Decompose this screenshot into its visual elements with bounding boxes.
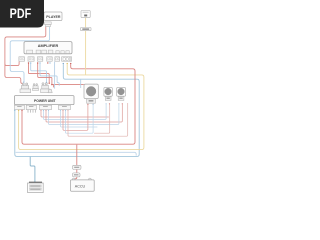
wire blue tangle 2: amp terminal 3 toward power unit grommet xyxy=(40,63,59,86)
svg-text:PLAYER: PLAYER xyxy=(46,15,61,19)
wire blue drop to subwoofer xyxy=(80,80,82,88)
player connector xyxy=(45,22,52,27)
grommet connector xyxy=(48,89,52,92)
power terminal 2 xyxy=(26,105,36,109)
wire red branch to amplifier terminal xyxy=(5,62,19,66)
wire red: battery feed from red bus through fuses xyxy=(76,145,78,166)
speaker run red to speaker 1 xyxy=(63,105,88,131)
power terminal 1 xyxy=(14,105,24,109)
power terminal stubs xyxy=(28,110,36,113)
remote box xyxy=(81,28,92,31)
speaker SP1 xyxy=(84,84,98,105)
wire red tangle 2: amp terminal 3 toward power unit grommet xyxy=(38,63,52,84)
amp terminal row xyxy=(19,57,72,61)
antenna box xyxy=(81,11,90,18)
wire yellow: remote box down to yellow bus xyxy=(85,31,87,75)
svg-text:POWER UNIT: POWER UNIT xyxy=(34,99,57,103)
fuse F1 xyxy=(73,165,82,169)
svg-text:ACCU: ACCU xyxy=(75,185,86,189)
wire yellow bus: amp pin right side loop to power unit xyxy=(19,64,144,149)
wire yellow: antenna box to remote box xyxy=(85,18,87,28)
speaker run pale from power unit terminal 4 xyxy=(61,110,98,127)
speaker wire pink long from speaker 2 xyxy=(94,105,110,134)
speaker run red upper xyxy=(41,110,109,117)
bottom-left box (car stereo tap) xyxy=(28,182,44,192)
svg-text:PDF: PDF xyxy=(10,6,32,22)
speaker run blue to speaker 2 xyxy=(44,105,107,120)
PLAYER box xyxy=(44,12,62,21)
PDF badge overlay xyxy=(0,0,44,28)
wire blue branch to bottom-left box xyxy=(30,157,35,183)
power unit xyxy=(14,96,74,105)
speaker run blue to speaker 3 xyxy=(49,105,119,125)
wire red tangle 1: amp terminal 2 to relay 3 xyxy=(29,63,50,83)
wire red: fuse2 to ACCU xyxy=(75,177,77,179)
wire blue: player connector to relay 1 xyxy=(10,27,49,82)
svg-text:AMPLIFIER: AMPLIFIER xyxy=(38,44,59,48)
power terminal 3 xyxy=(39,105,51,109)
wire red: fuse1 to fuse2 xyxy=(76,169,78,173)
fuse F2 xyxy=(73,173,81,177)
amplifier U1 xyxy=(24,42,72,54)
relay 2 xyxy=(32,84,38,91)
speaker run pink to right side xyxy=(68,103,128,136)
amp connector row xyxy=(27,50,70,53)
relay 3 xyxy=(41,83,50,93)
amp pin dots xyxy=(28,62,72,64)
wire blue tangle 1: amp terminal 2 to relay 3 xyxy=(31,63,47,82)
wire red spur to subwoofer xyxy=(52,84,84,86)
wire red bus: amp pin right side loop to power unit xyxy=(22,64,135,144)
battery ACCU xyxy=(71,178,95,191)
power terminal 4 xyxy=(59,105,71,109)
wire red: player connector to amp terminal 1 (trunk down left side) xyxy=(5,27,46,84)
speaker SP3 xyxy=(117,87,126,104)
speaker SP2 xyxy=(104,87,112,104)
wire light blue: amp terminal 5 down to grommet xyxy=(54,62,56,89)
relay 1 xyxy=(20,83,31,93)
wire pale blue lower run xyxy=(16,152,137,155)
speaker run red to speaker 3 xyxy=(46,105,122,122)
power pin dots xyxy=(14,110,69,111)
speaker run blue to speaker 1 xyxy=(66,105,94,134)
wire blue bus: amp pin right side loop to power unit xyxy=(15,64,139,156)
